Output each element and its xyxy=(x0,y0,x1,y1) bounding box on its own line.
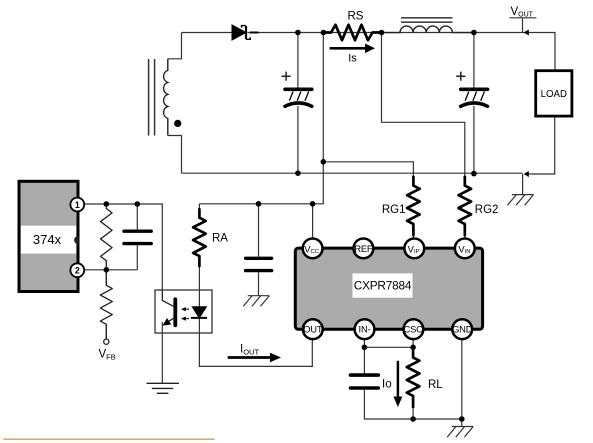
svg-text:2: 2 xyxy=(75,266,80,276)
svg-text:GND: GND xyxy=(452,324,473,335)
svg-text:IOUT: IOUT xyxy=(240,344,259,357)
svg-text:VOUT: VOUT xyxy=(511,6,534,19)
svg-text:1: 1 xyxy=(75,200,80,210)
svg-text:Io: Io xyxy=(382,379,392,391)
svg-text:Is: Is xyxy=(348,52,357,64)
svg-text:OUT: OUT xyxy=(303,324,323,335)
svg-text:VFB: VFB xyxy=(99,348,116,361)
svg-text:CXPR7884: CXPR7884 xyxy=(354,279,412,293)
svg-text:IN-: IN- xyxy=(359,324,371,335)
svg-text:CSO: CSO xyxy=(404,324,424,335)
svg-text:RG1: RG1 xyxy=(382,204,406,216)
svg-text:RA: RA xyxy=(212,233,228,245)
svg-text:RG2: RG2 xyxy=(475,204,499,216)
svg-text:LOAD: LOAD xyxy=(541,89,567,100)
svg-text:RS: RS xyxy=(348,11,364,23)
svg-text:374x: 374x xyxy=(33,232,62,247)
svg-text:REF: REF xyxy=(354,243,373,254)
svg-text:RL: RL xyxy=(428,379,443,391)
